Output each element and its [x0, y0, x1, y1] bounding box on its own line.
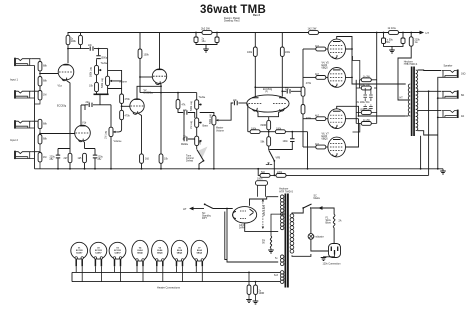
ground G IEC	[324, 254, 335, 258]
svg-text:6BQ5: 6BQ5	[197, 253, 203, 255]
svg-text:V1a: V1a	[58, 85, 63, 88]
op: phase inverter tube ECC83 PI	[247, 95, 289, 112]
resistor grid stopper 1	[303, 48, 316, 50]
wire master wiper to PI	[219, 103, 233, 120]
resistor R dropper 3 (1k 10W)	[389, 31, 399, 35]
svg-text:450v: 450v	[385, 41, 391, 44]
svg-text:Middle: Middle	[181, 143, 189, 146]
svg-text:DPT: DPT	[202, 217, 207, 220]
svg-text:100k: 100k	[144, 54, 150, 57]
capacitor screen bypass row A	[365, 88, 371, 101]
wire V2b cathode down	[160, 83, 161, 154]
wire NFB from 8ohm tap	[428, 91, 430, 175]
svg-text:HT: HT	[183, 207, 187, 211]
svg-text:220k: 220k	[277, 171, 283, 174]
pot volume 2	[100, 104, 111, 106]
ground G CL90	[268, 250, 274, 253]
svg-text:1M: 1M	[43, 94, 46, 97]
svg-text:HT: HT	[426, 31, 430, 35]
HV annotation arrows	[262, 200, 264, 229]
NFB return line	[258, 169, 428, 176]
svg-text:1k5: 1k5	[78, 157, 83, 160]
svg-text:Volume: Volume	[216, 129, 225, 132]
capacitor 22n PI out b	[281, 90, 283, 92]
resistor 100k V2 supply	[139, 33, 141, 50]
resistor 10k V2b cathode	[159, 154, 163, 163]
svg-text:6BQ5: 6BQ5	[322, 67, 329, 70]
input jack J3	[15, 120, 35, 128]
svg-text:100R 2W: 100R 2W	[360, 108, 371, 111]
svg-text:Treble: Treble	[101, 62, 108, 65]
svg-text:12AX7: 12AX7	[114, 252, 121, 255]
resistor 220k 1W	[410, 32, 412, 34]
svg-text:2A: 2A	[339, 220, 342, 223]
resistor screen 1k bottom	[356, 122, 377, 124]
svg-text:Volume: Volume	[114, 140, 123, 143]
thermistor CL90	[270, 236, 271, 248]
resistor 100k bias b	[260, 131, 275, 133]
resistor 47k slope	[177, 93, 179, 100]
svg-text:1k5: 1k5	[145, 158, 150, 161]
svg-text:500k Log: 500k Log	[190, 100, 193, 111]
wire V1b plate	[80, 105, 82, 125]
fuse mains	[333, 215, 335, 228]
filter cap C1 16u	[195, 33, 197, 38]
node V1a grid junction	[39, 73, 41, 75]
resistor 100R bottom	[356, 112, 377, 114]
resistor 68k input2b	[38, 135, 42, 144]
svg-text:1M Log: 1M Log	[104, 130, 107, 139]
svg-text:1M Log: 1M Log	[190, 120, 193, 129]
pot treble	[196, 93, 198, 100]
humdinger resistors	[248, 272, 250, 274]
svg-text:4k7: 4k7	[315, 45, 320, 48]
svg-text:1M: 1M	[43, 156, 46, 159]
wire rectifier plates	[245, 197, 279, 232]
HT arrow left	[189, 207, 193, 211]
wire V1a cathode	[67, 81, 71, 149]
wire V1b cathode	[83, 141, 85, 149]
wire V2a plate up	[137, 86, 161, 99]
resistor 100R top	[356, 87, 364, 89]
node V2a grid	[121, 105, 123, 107]
wire PI plate a to coupling bus	[254, 86, 256, 88]
svg-text:Blow: Blow	[326, 222, 331, 225]
svg-text:Indicator: Indicator	[315, 236, 324, 239]
speaker jack 8ohm	[438, 90, 458, 98]
svg-text:Input 1: Input 1	[10, 78, 18, 82]
svg-text:HTR 764D-S: HTR 764D-S	[279, 190, 293, 193]
resistor 100k PI plate b	[281, 33, 283, 48]
pentode EL84 V5	[328, 68, 346, 88]
wire OT frame ground	[420, 136, 422, 169]
node rail junction B	[216, 32, 218, 34]
PI cathodes tail	[256, 111, 283, 121]
resistor 100k PI plate a	[254, 33, 256, 48]
resistor 1M grid leak 1	[39, 71, 41, 91]
OT secondary winding	[416, 70, 418, 131]
PT 5V winding	[280, 255, 284, 266]
HT arrow	[420, 31, 425, 35]
PT 6.3V winding	[280, 271, 284, 284]
svg-text:1k2 2W: 1k2 2W	[308, 27, 317, 31]
wire volume1 loop	[108, 70, 122, 94]
wire jack tips to resistors	[31, 59, 40, 154]
svg-text:2k2 2W: 2k2 2W	[201, 27, 210, 31]
node treble branch	[98, 48, 100, 50]
node standby junction	[226, 208, 228, 210]
resistor 5k6 NFB	[260, 174, 270, 178]
svg-text:ECC83g: ECC83g	[57, 105, 67, 108]
wire V1a plate lead	[67, 49, 69, 64]
heater bus upper	[72, 271, 280, 273]
wire grid feed column	[302, 49, 304, 147]
svg-text:100k: 100k	[276, 128, 282, 131]
wire volume feed	[107, 49, 109, 77]
resistor 1M grid leak 2	[39, 129, 41, 153]
resistor 1M V2a cathode	[140, 154, 144, 163]
snubber 100n	[256, 181, 268, 186]
svg-text:Heater Connections: Heater Connections	[157, 286, 181, 290]
svg-text:12AX7: 12AX7	[76, 252, 83, 255]
capacitor 22n coupling V1a	[90, 46, 93, 50]
svg-text:100k: 100k	[71, 40, 77, 43]
resistor grid stopper 4	[303, 146, 316, 148]
ground G2	[391, 46, 393, 50]
PT primary	[290, 214, 294, 253]
svg-text:500k Log: 500k Log	[90, 66, 93, 77]
wire V2a cathode	[138, 113, 142, 154]
svg-text:6BQ5: 6BQ5	[137, 253, 143, 255]
capacitor 100n NFB	[291, 132, 293, 139]
svg-text:Defeat: Defeat	[186, 160, 193, 163]
wire plates pair A to OT	[337, 37, 406, 85]
input jack J4	[15, 151, 35, 159]
indicator lamp	[308, 234, 314, 240]
svg-text:100k: 100k	[285, 51, 291, 54]
svg-text:1k 2W: 1k 2W	[363, 119, 371, 122]
speaker jack 16ohm	[438, 70, 458, 78]
triode V2a	[130, 99, 144, 115]
heater pin wires	[76, 266, 202, 281]
svg-text:Drawing: Rev2: Drawing: Rev2	[224, 19, 240, 22]
PT HV centre tap	[281, 213, 283, 215]
heater tube V3	[109, 242, 126, 259]
capacitor 22n PI input	[234, 101, 237, 105]
svg-text:VFB: VFB	[276, 157, 281, 160]
svg-text:100R 2W: 100R 2W	[360, 84, 371, 87]
svg-text:4k7: 4k7	[315, 143, 320, 146]
arrow mains	[318, 206, 322, 210]
svg-text:Input 2: Input 2	[10, 138, 18, 142]
pot middle	[195, 136, 202, 145]
capacitor screen bypass row B	[365, 105, 371, 113]
svg-text:ECC83g: ECC83g	[144, 92, 154, 95]
resistor 470k grid leak b	[301, 105, 305, 114]
rectifier tube GZ34	[233, 207, 257, 223]
resistor grid stopper 2	[303, 76, 316, 78]
pentode EL84 V6	[328, 109, 346, 129]
svg-text:HT: HT	[400, 97, 404, 100]
svg-text:3x 100u 50v: 3x 100u 50v	[357, 101, 371, 104]
heater tube V5	[152, 240, 168, 261]
switch mains	[302, 207, 304, 209]
capacitor 22n lower	[89, 103, 92, 107]
wire to volume2 wiper	[116, 120, 121, 132]
resistor PI tail	[267, 120, 271, 129]
svg-text:Rev 2: Rev 2	[253, 13, 260, 17]
svg-text:4Ω: 4Ω	[461, 115, 464, 118]
svg-text:500k Log: 500k Log	[209, 113, 212, 124]
svg-text:100n: 100n	[283, 140, 289, 143]
svg-text:100k: 100k	[247, 51, 253, 54]
svg-text:Treble: Treble	[199, 96, 206, 99]
ground G1	[205, 45, 207, 50]
svg-text:ECC83g: ECC83g	[263, 88, 273, 91]
resistor 68k input2a	[38, 119, 42, 128]
wire to V2a grid	[122, 105, 130, 107]
svg-text:Speaker: Speaker	[444, 65, 453, 68]
wire primary bottom	[292, 254, 311, 256]
svg-text:16u: 16u	[202, 40, 207, 43]
heater tube V6	[171, 240, 187, 261]
svg-text:Bass: Bass	[203, 125, 209, 128]
wire primary top to mains switch	[292, 208, 303, 214]
svg-text:325-0-325: 325-0-325	[263, 204, 266, 216]
switch VFB	[268, 146, 270, 150]
OT primary winding	[408, 84, 410, 116]
screen supply drop	[376, 32, 378, 34]
svg-text:1k 10w: 1k 10w	[388, 26, 396, 30]
heater bus lower	[72, 281, 280, 283]
svg-text:16Ω: 16Ω	[461, 73, 466, 76]
svg-text:22n: 22n	[285, 87, 290, 90]
heater tube V1	[71, 242, 88, 259]
screen ladder left rail	[355, 80, 357, 124]
svg-text:22n: 22n	[88, 44, 93, 47]
svg-text:V1b: V1b	[82, 122, 87, 125]
svg-text:120v Connection: 120v Connection	[323, 263, 342, 266]
capacitor 22n middle feed	[183, 113, 184, 140]
capacitor 22n bass feed	[184, 110, 187, 114]
wire grid V1a	[40, 73, 59, 75]
speaker jack 4ohm	[438, 110, 458, 118]
svg-text:500k Log: 500k Log	[101, 77, 104, 88]
pot 500k treble-cut	[96, 59, 98, 65]
resistor R dropper 2 (1k2 2W)	[309, 31, 319, 35]
ground bus main	[35, 168, 444, 170]
svg-text:1k 2W: 1k 2W	[363, 76, 371, 79]
svg-text:22n: 22n	[183, 135, 188, 138]
pot bass	[195, 118, 202, 127]
wire V2b grid stub	[139, 76, 141, 78]
switch standby	[204, 203, 206, 205]
resistor 56k tail lower	[248, 104, 269, 137]
svg-text:470k: 470k	[306, 82, 312, 85]
wire 22n to V1b plate	[81, 105, 85, 110]
resistor plate 100k a	[67, 33, 69, 36]
svg-text:470k: 470k	[125, 115, 131, 118]
switch tone defeat	[196, 146, 198, 150]
resistor 220k NFB	[276, 174, 286, 178]
resistor grid stopper 3	[303, 118, 316, 120]
svg-text:2k7: 2k7	[64, 157, 69, 160]
svg-text:1000p: 1000p	[101, 56, 108, 59]
svg-text:6BQ5: 6BQ5	[177, 253, 183, 255]
svg-text:6BQ5: 6BQ5	[157, 253, 163, 255]
svg-text:HTB 764D-S: HTB 764D-S	[404, 63, 418, 66]
wire down to 22n lower	[85, 94, 100, 105]
svg-text:PI: PI	[266, 90, 269, 93]
svg-text:Mains: Mains	[314, 197, 321, 200]
resistor R dropper 1 (2k2 2W)	[202, 31, 212, 35]
screen stubs to tubes	[353, 56, 360, 132]
OT core	[411, 67, 413, 137]
wire standby feed	[194, 208, 205, 210]
wire jack sleeve trunk	[34, 66, 36, 169]
svg-text:22n: 22n	[183, 109, 188, 112]
cathode network V1a: cap 220u + resistor 1k5	[58, 149, 70, 154]
svg-text:12AX7: 12AX7	[95, 252, 102, 255]
svg-text:100R: 100R	[259, 292, 265, 295]
svg-text:100n: 100n	[257, 178, 263, 181]
IEC connector	[329, 244, 341, 258]
resistor 470k grid feed upper	[120, 94, 124, 103]
svg-text:1w: 1w	[415, 41, 418, 44]
heater tube V7	[191, 240, 207, 261]
node V1b grid junction	[39, 133, 41, 135]
wire plate node to coupling cap	[68, 48, 108, 50]
svg-text:470k: 470k	[125, 98, 131, 101]
wire grid V1b	[40, 133, 75, 135]
resistor 100k bias a	[248, 131, 250, 133]
wire plates pair B to OT	[337, 106, 406, 147]
triode V1b	[75, 122, 91, 142]
svg-text:6BQ5: 6BQ5	[322, 138, 329, 141]
pentode EL84 V7	[328, 137, 346, 157]
input jack J2	[15, 90, 35, 98]
triode V1a	[58, 64, 74, 87]
wire speaker commons	[437, 77, 439, 169]
wire sec tap 16	[417, 70, 441, 135]
svg-text:5k6: 5k6	[261, 171, 266, 174]
svg-text:22n: 22n	[86, 101, 91, 104]
node plate V1a	[68, 45, 81, 49]
wire V2b plate to rail	[159, 33, 161, 70]
svg-text:4k7: 4k7	[315, 115, 320, 118]
pot volume 1	[106, 76, 113, 85]
resistor 68k input1a	[38, 62, 42, 71]
resistor plate 100k b	[80, 33, 82, 36]
resistor 470k grid feed lower	[120, 110, 124, 119]
resistor 470k grid leak a	[301, 87, 305, 96]
cathode network V1b: resistor + cap	[85, 149, 96, 156]
capacitor 1000p treble	[98, 49, 100, 56]
svg-text:100k: 100k	[251, 128, 257, 131]
wire HT rail	[68, 32, 420, 34]
svg-text:6v3: 6v3	[274, 274, 279, 277]
filter cap C2 16u	[216, 33, 218, 38]
svg-text:8Ω: 8Ω	[461, 94, 464, 97]
pot master volume	[200, 113, 214, 116]
PT HV secondary	[280, 195, 284, 230]
ground G humdinger	[246, 300, 252, 303]
triode V2b	[152, 69, 166, 85]
resistor 10k below treble pot	[96, 75, 98, 83]
wire junction bar	[94, 93, 109, 95]
node bus dots	[57, 168, 59, 170]
heater tube V2	[90, 242, 107, 259]
svg-text:4k7: 4k7	[315, 73, 320, 76]
wire OT bottom primary tap	[406, 115, 409, 117]
svg-text:820R: 820R	[261, 124, 267, 127]
heater pins	[75, 257, 204, 261]
resistor screen 1k top	[360, 80, 377, 88]
filter caps C3 C4 2x50u	[383, 32, 385, 34]
ground G main	[442, 169, 444, 171]
wire V2 output bus	[160, 92, 162, 94]
node rail junction A	[195, 32, 197, 34]
heater tube V4	[132, 240, 148, 261]
pentode EL84 V4	[328, 39, 346, 59]
svg-text:22n: 22n	[233, 99, 238, 102]
PT core	[285, 194, 287, 288]
resistor 68k input1b	[38, 77, 42, 86]
input jack J1	[15, 58, 35, 66]
